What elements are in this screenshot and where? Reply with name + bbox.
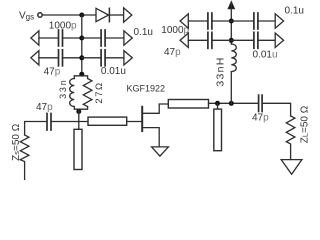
inductor 33n xyxy=(70,79,75,107)
svg-text:0.1u: 0.1u xyxy=(285,6,304,17)
inductor 33nH xyxy=(231,44,236,72)
svg-text:ZL=50 Ω: ZL=50 Ω xyxy=(300,105,311,143)
wire xyxy=(63,57,82,59)
wire Vds vertical xyxy=(230,3,232,45)
svg-text:0.01u: 0.01u xyxy=(101,66,126,77)
ground ZL xyxy=(281,160,302,175)
connector arrow left row2 xyxy=(31,51,39,65)
terminal Vgs xyxy=(38,13,42,17)
wire stub lead xyxy=(217,103,219,109)
wire xyxy=(188,39,207,41)
svg-text:47p: 47p xyxy=(164,47,181,58)
wire xyxy=(105,57,124,59)
capacitor 0.1u right xyxy=(253,13,255,29)
node right row2 xyxy=(229,38,234,43)
node bias split top xyxy=(79,72,84,77)
wire bias to stub xyxy=(78,109,80,129)
wire diode to arrow xyxy=(109,14,123,16)
wire microstrip to gate xyxy=(127,121,142,123)
svg-text:27Ω: 27Ω xyxy=(94,81,105,103)
wire xyxy=(82,57,101,59)
wire output xyxy=(209,102,259,104)
power arrow Vds xyxy=(228,2,234,9)
wire xyxy=(63,37,82,39)
node stub junction xyxy=(215,101,220,106)
wire xyxy=(258,20,275,22)
wire xyxy=(105,37,124,39)
microstrip line input xyxy=(88,117,127,125)
ground source xyxy=(152,147,169,156)
svg-text:47p: 47p xyxy=(44,66,61,77)
capacitor 47p output xyxy=(258,95,260,111)
svg-text:47p: 47p xyxy=(36,102,53,113)
capacitor 0.01u right xyxy=(253,32,255,48)
connector arrow right r-row1 xyxy=(275,14,283,28)
wire split xyxy=(74,76,87,79)
svg-text:Vgs: Vgs xyxy=(19,11,34,22)
connector arrow right r-row2 xyxy=(275,33,283,47)
svg-text:Zs=50 Ω: Zs=50 Ω xyxy=(11,123,22,161)
node bias junction output xyxy=(229,101,234,106)
wire rejoin xyxy=(74,107,87,110)
stub input xyxy=(74,129,82,169)
wire xyxy=(39,57,58,59)
svg-text:0.01u: 0.01u xyxy=(253,50,278,61)
wire xyxy=(39,37,58,39)
wire xyxy=(188,20,207,22)
diode D1 xyxy=(96,8,109,21)
capacitor 47p input xyxy=(46,114,48,131)
connector arrow right row2 xyxy=(124,51,132,65)
capacitor 1000p xyxy=(58,30,60,46)
svg-text:0.1u: 0.1u xyxy=(134,27,153,38)
svg-text:1000p: 1000p xyxy=(161,25,189,36)
resistor Zs xyxy=(20,135,29,180)
capacitor 47p row2 xyxy=(58,50,60,66)
svg-text:33nH: 33nH xyxy=(215,56,227,86)
wire xyxy=(82,37,101,39)
transistor Q1 KGF1922 xyxy=(141,107,143,131)
svg-text:KGF1922: KGF1922 xyxy=(127,84,166,94)
connector arrow right top xyxy=(124,8,132,22)
connector arrow left row1 xyxy=(31,31,39,45)
node row1 xyxy=(79,36,84,41)
wire left bias vertical xyxy=(81,15,83,76)
wire cap to microstrip xyxy=(51,121,88,123)
connector arrow left r-row1 xyxy=(180,14,188,28)
svg-text:47p: 47p xyxy=(252,113,269,124)
node top-left junction xyxy=(79,13,84,18)
wire xyxy=(231,20,253,22)
wire inductor to output xyxy=(230,72,232,104)
wire cap to ZL xyxy=(262,103,291,116)
wire xyxy=(212,39,231,41)
wire Vgs to node xyxy=(43,14,96,16)
capacitor 0.01u xyxy=(100,50,102,66)
svg-text:33n: 33n xyxy=(58,78,68,98)
capacitor 47p right xyxy=(207,32,209,48)
wire xyxy=(258,39,275,41)
connector arrow right row1 xyxy=(124,31,132,45)
wire source xyxy=(142,128,159,147)
wire input corner xyxy=(25,122,47,136)
stub output xyxy=(214,109,222,151)
resistor 27ohm xyxy=(83,79,92,107)
capacitor 1000p right xyxy=(207,13,209,29)
microstrip line output xyxy=(168,100,208,109)
node right row1 xyxy=(229,19,234,24)
node bias bottom xyxy=(76,109,81,114)
wire xyxy=(212,20,231,22)
node row2 xyxy=(79,55,84,60)
connector arrow left r-row2 xyxy=(180,33,188,47)
resistor ZL xyxy=(286,116,295,160)
wire xyxy=(231,39,253,41)
wire drain xyxy=(142,104,168,113)
capacitor 0.1u xyxy=(100,30,102,46)
